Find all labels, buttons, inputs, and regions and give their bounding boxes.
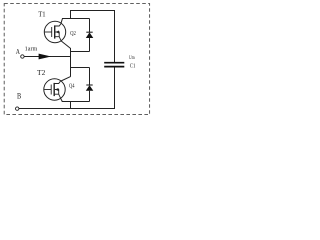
wire emitter link T2-Q4 [62,101,90,103]
wire upper mid link [71,51,90,53]
svg-text:T1: T1 [38,10,46,19]
transistor T2 [44,79,65,100]
svg-text:B: B [17,91,21,100]
wire T1 collector lead [61,19,62,24]
wire midpoint vertical [70,48,72,77]
node A terminal [21,55,24,58]
svg-text:Um: Um [129,55,135,61]
wire T2 emitter lead [61,98,63,101]
arrow 1arm current direction [39,54,52,60]
wire collector link T1-Q2 [62,18,90,20]
wire bottom rail [19,67,115,109]
capacitor C1 [104,63,124,67]
wire step down to bottom rail [70,102,72,109]
diode Q2 [86,19,94,52]
wire lower mid link [71,67,90,69]
svg-text:C1: C1 [130,63,136,69]
node B terminal [16,107,19,110]
wire top rail (step up from collector node to rail, right to capacitor drop) [71,11,115,63]
wire node A to midpoint [24,56,71,58]
dashed enclosure border [4,4,149,115]
transistor T1 [44,21,65,42]
svg-text:1arm: 1arm [25,46,38,52]
svg-text:T2: T2 [37,68,45,77]
wire T1 emitter lead [61,41,70,49]
diode Q4 [86,68,94,102]
svg-text:Q4: Q4 [69,83,75,89]
svg-text:A: A [16,47,20,56]
svg-text:Q2: Q2 [70,31,76,37]
wire T2 collector lead [61,77,71,81]
